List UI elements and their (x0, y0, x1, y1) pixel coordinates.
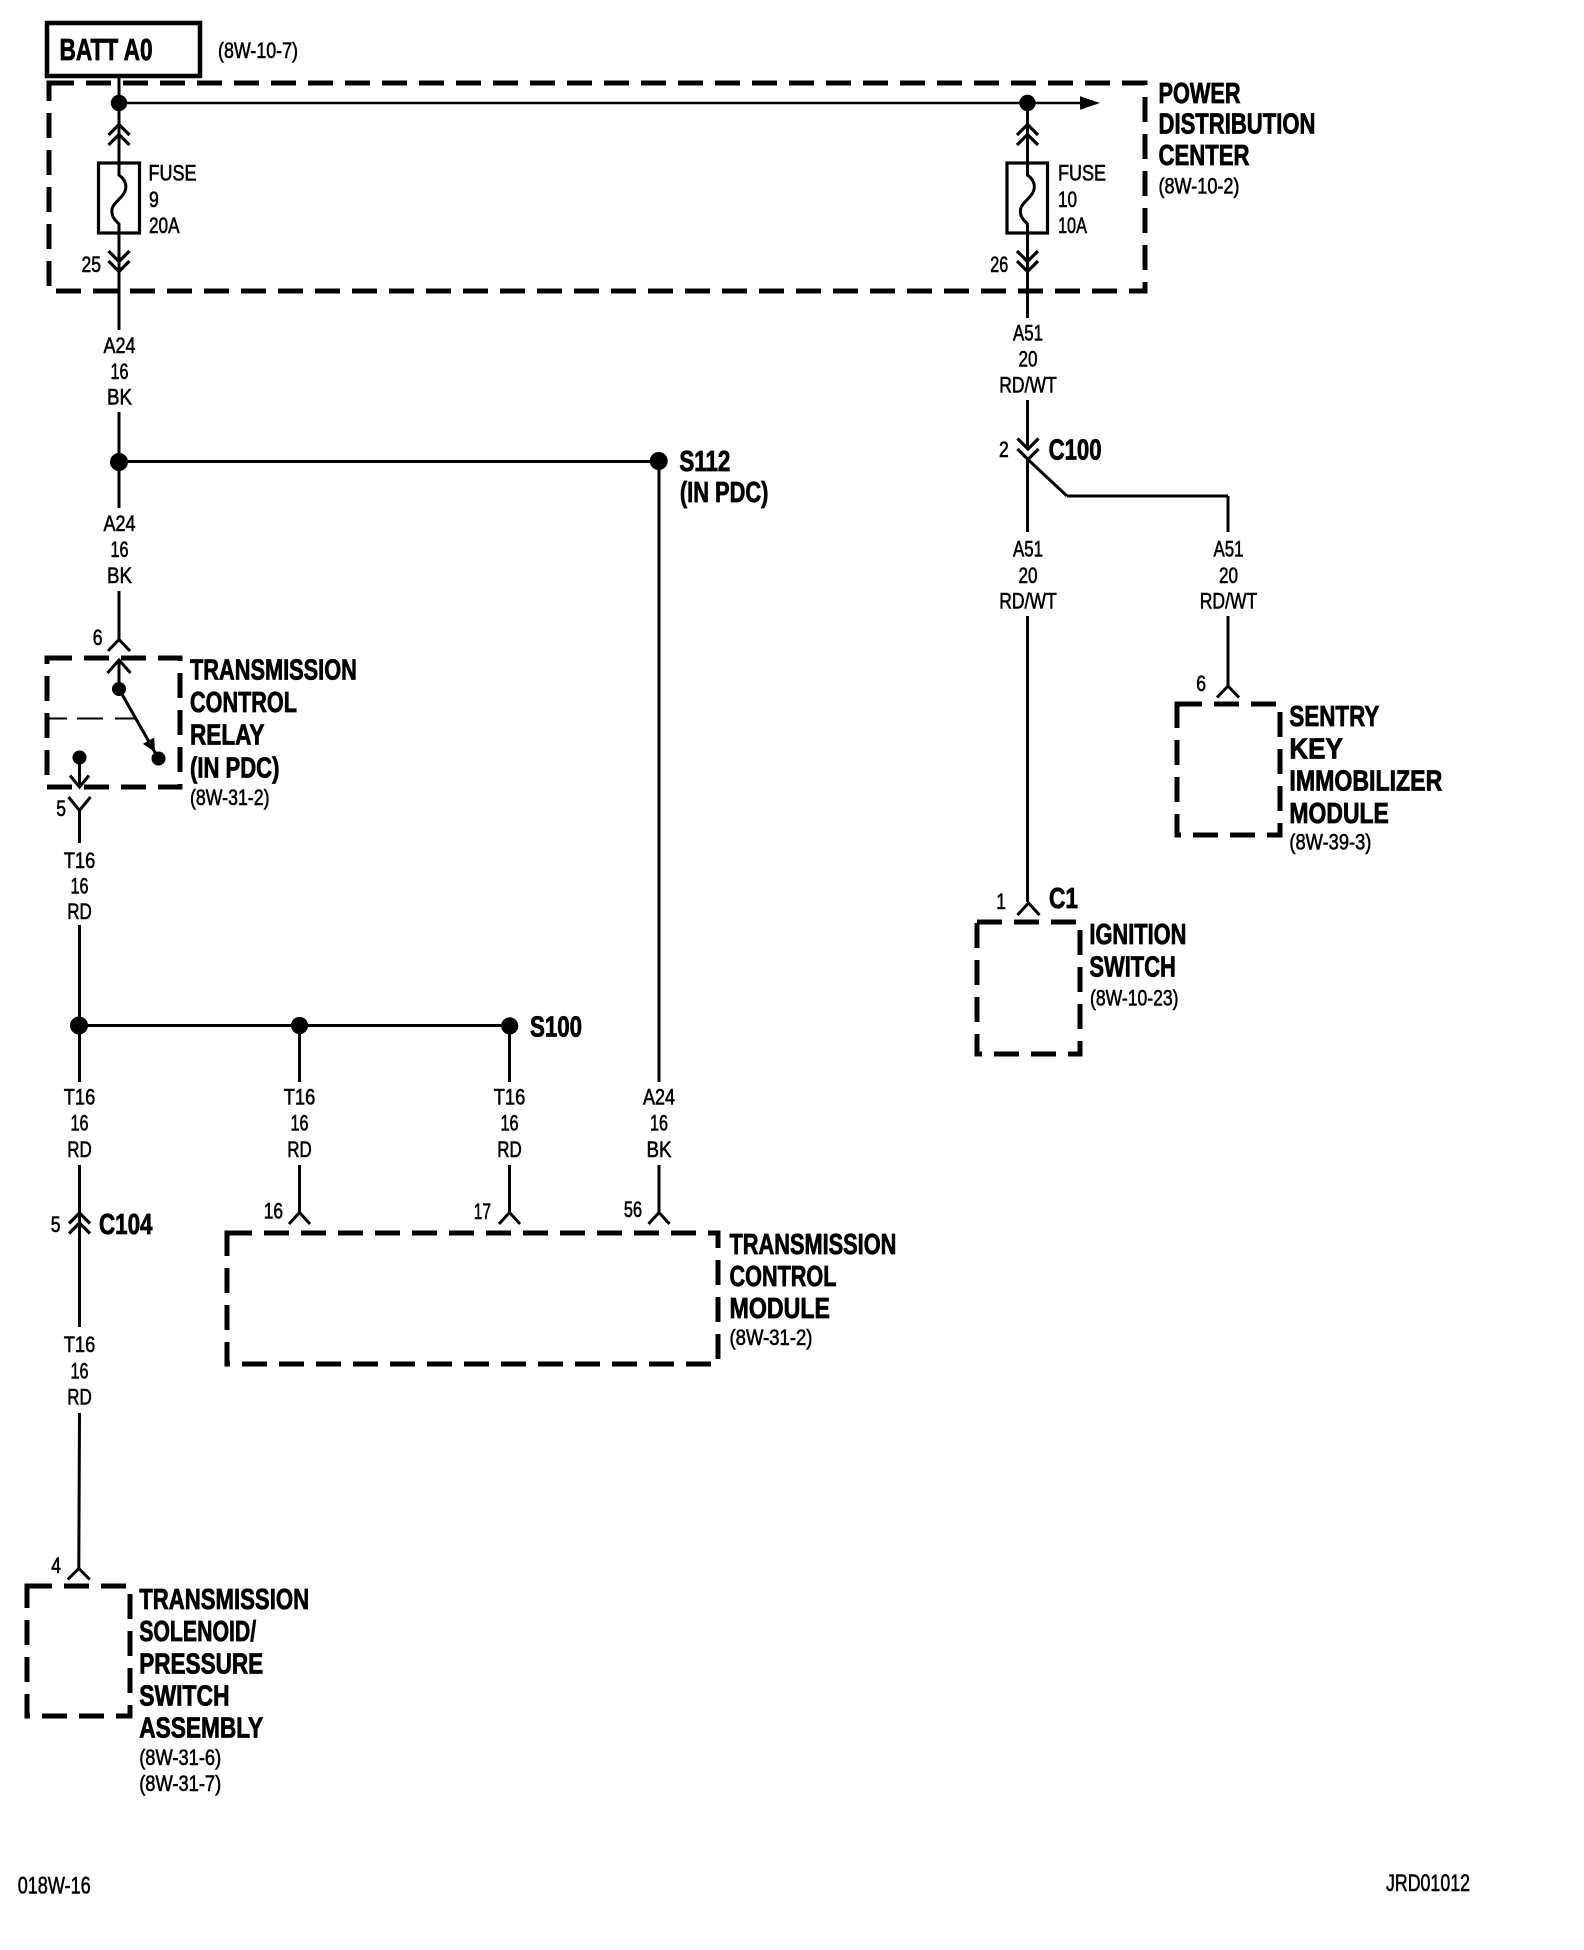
svg-text:JRD01012: JRD01012 (1386, 1871, 1470, 1897)
svg-text:(8W-39-3): (8W-39-3) (1289, 830, 1371, 855)
svg-text:17: 17 (474, 1200, 491, 1224)
svg-text:SWITCH: SWITCH (139, 1679, 229, 1712)
svg-text:BK: BK (647, 1137, 672, 1162)
svg-text:MODULE: MODULE (1289, 796, 1388, 829)
svg-text:SWITCH: SWITCH (1089, 952, 1175, 984)
svg-text:FUSE: FUSE (1058, 162, 1106, 186)
svg-text:MODULE: MODULE (730, 1291, 830, 1324)
svg-text:1: 1 (996, 890, 1006, 915)
svg-text:SOLENOID/: SOLENOID/ (139, 1616, 256, 1648)
svg-text:SENTRY: SENTRY (1289, 701, 1379, 732)
svg-text:20: 20 (1219, 564, 1238, 589)
svg-text:T16: T16 (64, 1085, 95, 1110)
svg-text:ASSEMBLY: ASSEMBLY (139, 1711, 263, 1744)
svg-text:26: 26 (990, 252, 1008, 277)
svg-text:16: 16 (650, 1111, 668, 1136)
svg-text:RD/WT: RD/WT (1200, 590, 1257, 615)
svg-text:A51: A51 (1213, 537, 1243, 562)
svg-text:RD: RD (497, 1138, 521, 1163)
svg-text:TRANSMISSION: TRANSMISSION (139, 1584, 309, 1615)
svg-text:(8W-10-23): (8W-10-23) (1090, 987, 1178, 1012)
svg-text:16: 16 (71, 1111, 89, 1136)
svg-text:16: 16 (111, 359, 129, 384)
svg-text:(8W-31-2): (8W-31-2) (730, 1325, 813, 1350)
svg-text:RD: RD (287, 1138, 311, 1163)
svg-text:RD/WT: RD/WT (999, 374, 1056, 399)
svg-text:POWER: POWER (1159, 78, 1241, 110)
svg-text:16: 16 (71, 1359, 89, 1384)
svg-text:RD: RD (67, 1385, 91, 1410)
svg-text:BATT A0: BATT A0 (60, 31, 153, 66)
svg-text:6: 6 (93, 626, 103, 651)
svg-text:6: 6 (1196, 672, 1206, 697)
svg-text:T16: T16 (64, 848, 95, 873)
svg-text:A24: A24 (643, 1086, 675, 1110)
svg-text:T16: T16 (284, 1085, 315, 1110)
svg-text:CONTROL: CONTROL (730, 1261, 837, 1293)
svg-text:(8W-31-7): (8W-31-7) (139, 1771, 221, 1796)
svg-text:16: 16 (264, 1199, 283, 1224)
svg-text:A51: A51 (1013, 321, 1043, 346)
svg-text:S100: S100 (530, 1012, 582, 1043)
svg-text:20: 20 (1018, 347, 1037, 372)
svg-text:16: 16 (71, 874, 89, 899)
svg-text:CONTROL: CONTROL (190, 687, 297, 719)
svg-text:10A: 10A (1058, 214, 1088, 239)
svg-text:TRANSMISSION: TRANSMISSION (190, 655, 357, 687)
svg-text:(8W-31-2): (8W-31-2) (190, 786, 269, 810)
svg-text:C1: C1 (1049, 881, 1078, 914)
svg-text:5: 5 (51, 1213, 61, 1238)
svg-text:C100: C100 (1049, 435, 1102, 466)
svg-text:018W-16: 018W-16 (18, 1872, 91, 1899)
svg-text:20: 20 (1018, 564, 1037, 589)
svg-text:IGNITION: IGNITION (1089, 919, 1186, 951)
svg-text:S112: S112 (679, 446, 730, 477)
svg-text:PRESSURE: PRESSURE (139, 1647, 263, 1680)
svg-text:RD/WT: RD/WT (999, 590, 1056, 615)
svg-text:RD: RD (67, 1138, 91, 1163)
svg-text:IMMOBILIZER: IMMOBILIZER (1289, 764, 1442, 797)
svg-text:CENTER: CENTER (1159, 140, 1250, 171)
svg-text:BK: BK (107, 563, 132, 588)
svg-text:(8W-10-2): (8W-10-2) (1159, 175, 1240, 199)
svg-text:DISTRIBUTION: DISTRIBUTION (1159, 109, 1316, 141)
svg-text:T16: T16 (494, 1085, 525, 1110)
svg-text:(8W-31-6): (8W-31-6) (139, 1745, 221, 1770)
svg-text:25: 25 (82, 253, 101, 278)
svg-text:T16: T16 (64, 1332, 95, 1357)
svg-text:A24: A24 (104, 334, 136, 358)
svg-text:(IN PDC): (IN PDC) (680, 477, 768, 509)
svg-text:9: 9 (149, 188, 159, 213)
svg-text:A51: A51 (1013, 537, 1043, 562)
svg-text:RELAY: RELAY (190, 718, 264, 751)
svg-text:(IN PDC): (IN PDC) (190, 753, 279, 785)
svg-text:16: 16 (501, 1111, 519, 1136)
svg-text:4: 4 (51, 1554, 61, 1579)
svg-text:A24: A24 (104, 512, 136, 536)
svg-text:TRANSMISSION: TRANSMISSION (730, 1229, 897, 1261)
svg-text:RD: RD (67, 900, 91, 925)
svg-text:(8W-10-7): (8W-10-7) (218, 39, 298, 63)
svg-text:C104: C104 (99, 1209, 153, 1240)
svg-text:16: 16 (111, 537, 129, 562)
svg-text:56: 56 (624, 1198, 642, 1223)
svg-text:10: 10 (1058, 188, 1077, 213)
svg-text:FUSE: FUSE (149, 162, 197, 186)
svg-text:16: 16 (291, 1111, 309, 1136)
svg-text:BK: BK (107, 385, 132, 410)
svg-text:2: 2 (999, 438, 1009, 463)
svg-text:5: 5 (56, 797, 66, 822)
svg-text:20A: 20A (149, 214, 180, 239)
svg-text:KEY: KEY (1289, 732, 1342, 765)
